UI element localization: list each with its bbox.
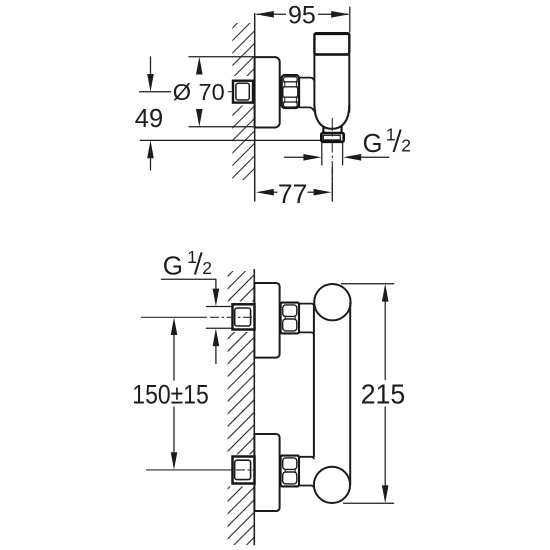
svg-text:2: 2: [401, 136, 411, 156]
svg-text:49: 49: [135, 105, 163, 133]
svg-text:G: G: [363, 130, 383, 158]
svg-text:150±15: 150±15: [132, 379, 209, 409]
svg-text:G: G: [163, 250, 183, 280]
svg-text:215: 215: [361, 379, 406, 410]
svg-text:95: 95: [288, 1, 316, 29]
svg-text:2: 2: [202, 258, 212, 278]
svg-text:Ø: Ø: [173, 79, 191, 105]
svg-text:1: 1: [187, 247, 197, 267]
svg-text:1: 1: [386, 125, 396, 145]
svg-text:70: 70: [199, 79, 225, 105]
svg-text:77: 77: [278, 179, 307, 209]
